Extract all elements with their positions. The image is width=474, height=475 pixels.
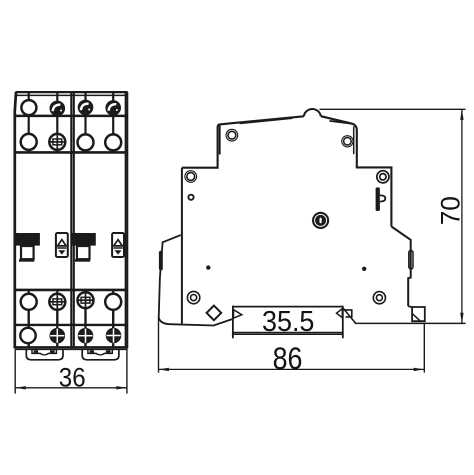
dim 36 arrow right: [116, 386, 127, 389]
dim 86 arrow right: [414, 368, 425, 371]
switch handle module2 stem: [77, 246, 90, 259]
screw terminal row3 c4: [105, 294, 121, 310]
rivet F bottom-right: [373, 292, 385, 304]
screw terminal row1 c2 (filled): [50, 101, 66, 117]
switch handle module2 (black cap): [71, 233, 96, 246]
right lower profile: slant out, slot, step, down: [391, 227, 410, 307]
wire stubs row3: [29, 290, 114, 294]
right hook overlay on box corner: [343, 310, 351, 317]
svg-text:86: 86: [273, 341, 303, 376]
switch handle module1 (black cap): [15, 233, 40, 246]
dim 70 arrow top: [460, 109, 463, 120]
right DIN hook notch: [408, 306, 425, 321]
upper left edge lip (double line): [219, 126, 221, 155]
wire stubs row1: [29, 92, 114, 101]
rivet A top-left: [226, 129, 239, 142]
dim 35.5 arrow right: [337, 309, 343, 318]
svg-text:35.5: 35.5: [262, 306, 314, 338]
wire stubs row2 (links to band): [29, 116, 114, 152]
screw terminal row2 c2 (cross+rect head): [49, 134, 65, 150]
left clip bottom curve to box: [159, 318, 233, 326]
mounting foot 2: [82, 350, 119, 360]
flag latch right: [376, 187, 386, 211]
screw terminal row2 c4: [105, 134, 121, 150]
svg-text:70: 70: [436, 196, 466, 225]
horizontal line through fourth row: [15, 324, 128, 326]
dim 36 line: [15, 387, 127, 389]
upper right edge inner lip: [353, 126, 355, 154]
dim 70 top extension line: [320, 108, 466, 110]
horizontal line under second screw row: [15, 151, 128, 154]
rivet B top-right: [341, 135, 353, 147]
dim 35.5 recess box: [232, 306, 343, 339]
small dot left: [206, 265, 210, 269]
screw terminal row1 c3 (filled): [78, 100, 94, 116]
top edge right of bump: [321, 116, 392, 226]
dim 86 extension lines: [158, 318, 160, 373]
dim 35.5 arrow left: [234, 310, 242, 318]
dim 36 arrow left: [15, 386, 26, 389]
front outline left edge with top slant: [15, 92, 16, 349]
horizontal line under top screw band: [15, 115, 128, 118]
dim 86 arrow left: [158, 368, 169, 371]
indicator window module1: [56, 233, 68, 257]
screw terminal row2 c3: [78, 134, 94, 150]
screw terminal row4 c2 (filled cross): [50, 328, 66, 344]
dim 36 extension lines: [14, 349, 16, 393]
module divider (double line): [70, 92, 72, 347]
front outline top edge (double): [16, 91, 128, 93]
clip spring black bar: [159, 251, 163, 271]
switch handle module1 stem: [21, 246, 34, 259]
screw terminal row1 c1: [21, 100, 36, 115]
indicator window module2: [112, 233, 124, 257]
front outline right edge (double): [125, 92, 127, 348]
small dot right: [362, 267, 366, 271]
side body upper outline: [182, 116, 304, 167]
main left edge: [181, 168, 183, 324]
screw terminal row2 c1: [21, 134, 37, 150]
left clip outline: [159, 235, 181, 318]
screw terminal row3 c3 (cross+rect head): [78, 292, 94, 308]
screw terminal row4 c3 (filled cross): [78, 328, 94, 344]
horizontal line above lower terminals: [15, 289, 128, 292]
svg-text:36: 36: [59, 363, 86, 393]
rivet D right (nut style): [377, 171, 389, 183]
screw terminal row3 c2 (cross+rect head): [49, 294, 65, 310]
mounting foot 1: [26, 350, 63, 360]
screw terminal row3 c1: [21, 294, 37, 310]
dim 70 line: [461, 109, 463, 323]
connectors row3-row4: [29, 308, 114, 347]
top edge lip dash left: [240, 118, 293, 123]
screw terminal row1 c4 (filled): [105, 100, 121, 116]
side bottom line (also 70 dim bottom extension): [355, 322, 466, 324]
dim 86 line: [158, 368, 424, 370]
diamond detail: [207, 306, 222, 321]
central screw: [312, 212, 329, 229]
slot detail on right edge: [409, 250, 413, 269]
dim 70 arrow bottom: [460, 313, 463, 324]
top edge lip dash right: [330, 121, 354, 124]
top bump: [304, 109, 321, 116]
screw terminal row4 c1: [20, 328, 35, 343]
rivet C left: [184, 170, 197, 183]
rivet E bottom-left: [187, 291, 199, 303]
small circle below rivet C: [188, 195, 193, 200]
screw terminal row4 c4 (filled cross): [106, 328, 122, 344]
bottom strip lines: [15, 346, 128, 348]
